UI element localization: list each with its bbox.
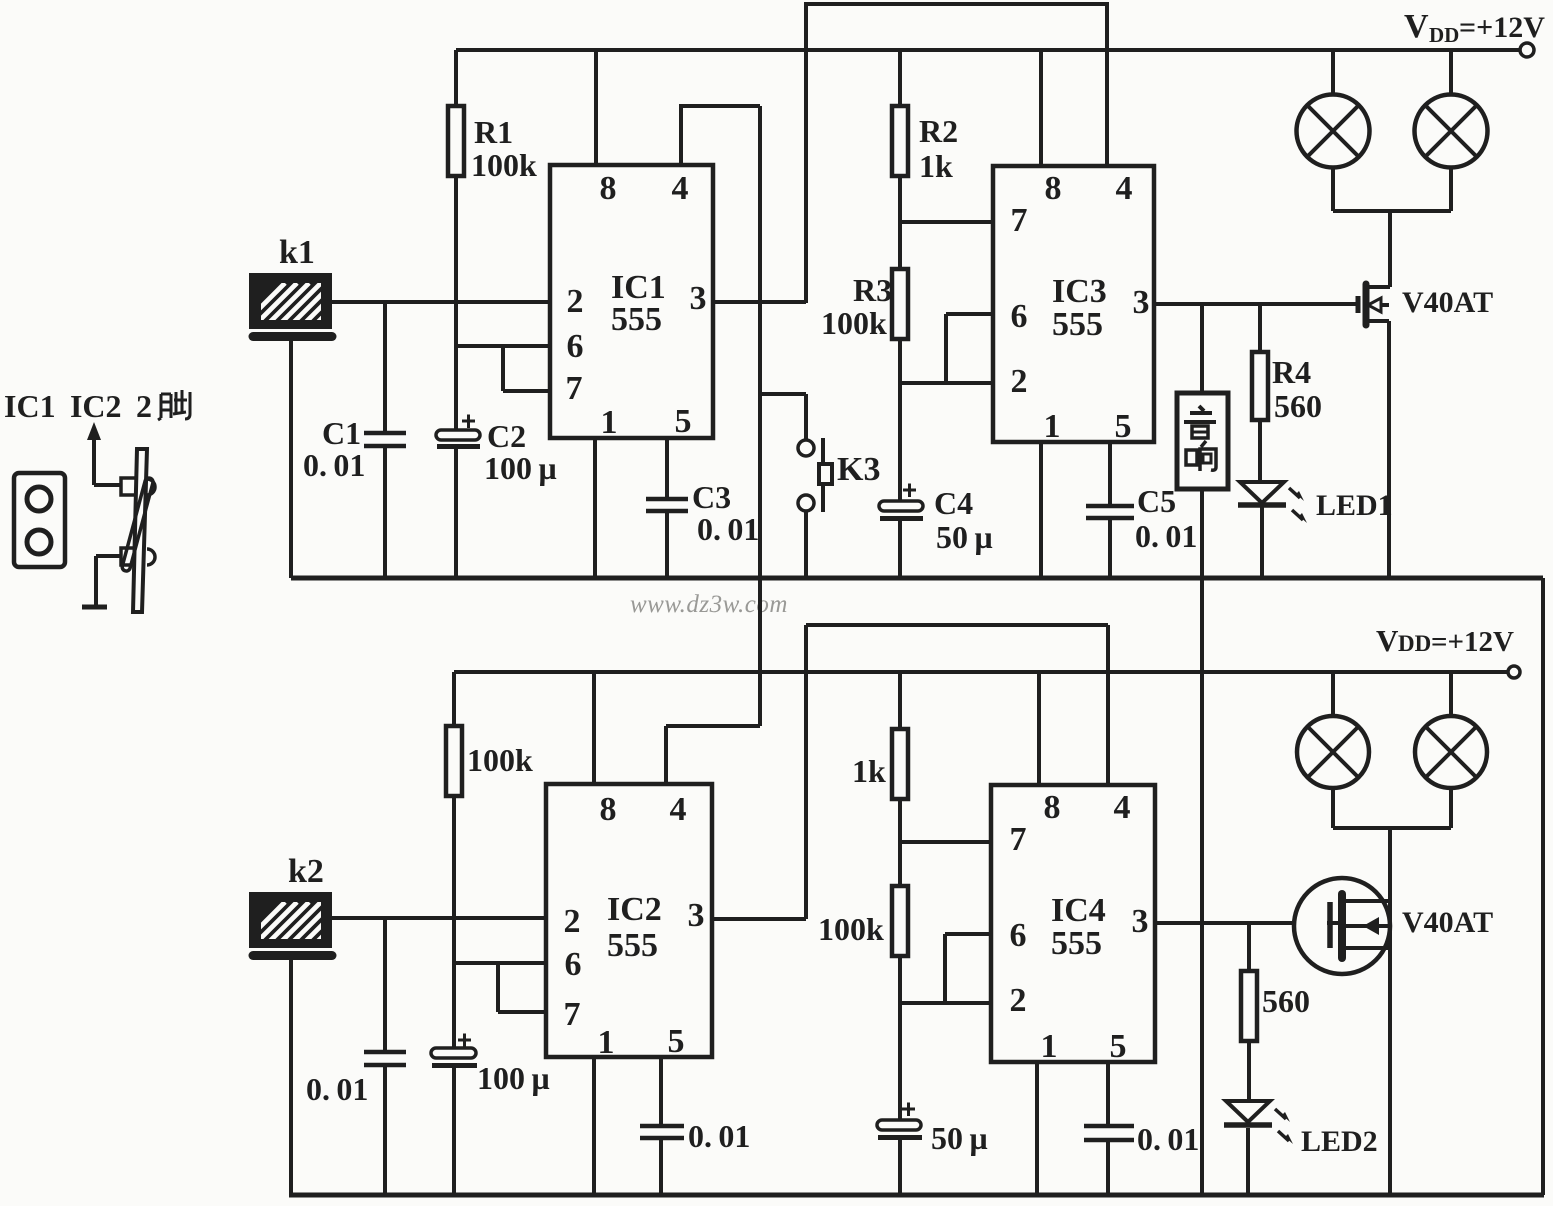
svg-text:0. 01: 0. 01: [697, 511, 759, 547]
wire lamp HL3 leads: [1331, 672, 1335, 828]
resistor R8 body (560): [1241, 971, 1257, 1041]
capacitor C3 plates: [646, 499, 688, 511]
capacitor C1 plates: [364, 433, 406, 446]
wire lamps to drain (bottom): [1388, 828, 1392, 901]
svg-text:4: 4: [670, 791, 687, 828]
wire lamp join (bottom): [1333, 826, 1451, 830]
node VDD rail (top): [456, 48, 1520, 52]
wire right edge ground link: [1541, 578, 1545, 1195]
resistor R2 body: [892, 106, 908, 176]
capacitor C8 plates (0.01): [640, 1126, 684, 1138]
svg-text:100k: 100k: [471, 147, 537, 183]
svg-text:IC3: IC3: [1052, 273, 1107, 310]
wire source to ground rail (bottom): [1388, 901, 1392, 1195]
wire C6 branch (0.01): [383, 918, 387, 1195]
capacitor C10 plates (0.01): [1084, 1126, 1134, 1140]
polarity + of C4: [903, 484, 916, 498]
svg-text:2: 2: [564, 903, 581, 940]
svg-text:5: 5: [675, 403, 692, 440]
wire VDD to R6: [898, 672, 902, 729]
wire lamp HL2 leads: [1449, 50, 1453, 211]
diode LED1: [1240, 482, 1284, 503]
svg-text:V: V: [1376, 623, 1399, 658]
capacitor C9 plates (electrolytic 50u): [877, 1120, 921, 1130]
svg-text:50 µ: 50 µ: [936, 519, 993, 555]
pivot bumps (inset): [147, 479, 155, 495]
lamp HL4: [1415, 716, 1487, 788]
wire IC4 pin6 jog: [945, 934, 991, 1003]
wire IC2 pin5 through C8: [659, 1057, 663, 1195]
svg-text:560: 560: [1274, 388, 1322, 424]
wire lamp HL4 leads: [1449, 672, 1453, 828]
svg-text:0. 01: 0. 01: [688, 1118, 750, 1154]
svg-text:C3: C3: [692, 479, 731, 515]
svg-text:LED1: LED1: [1316, 489, 1393, 522]
svg-text:1k: 1k: [919, 148, 953, 184]
svg-text:1: 1: [1044, 408, 1061, 445]
wire R5 bottom to C7: [452, 796, 456, 1049]
svg-text:5: 5: [1110, 1028, 1127, 1065]
wire C2 to ground rail: [454, 448, 458, 578]
svg-text:5: 5: [1115, 408, 1132, 445]
terminal VDD (bottom): [1508, 666, 1520, 678]
wire K3 tap: [760, 394, 806, 440]
svg-text:=+12V: =+12V: [1459, 11, 1545, 44]
speaker (sound box): [1177, 393, 1228, 489]
wire R8 branch (560): [1247, 923, 1251, 971]
svg-text:5: 5: [668, 1023, 685, 1060]
svg-text:6: 6: [1010, 917, 1027, 954]
wire k2 to IC2 pin2: [332, 916, 546, 920]
svg-text:8: 8: [1044, 789, 1061, 826]
wire IC2 pins6-7 tie: [454, 963, 546, 1012]
svg-text:4: 4: [1114, 789, 1131, 826]
resistor R3 body: [892, 269, 908, 339]
polarity + of C9: [902, 1103, 915, 1117]
svg-text:V40AT: V40AT: [1402, 906, 1493, 939]
svg-text:=+12V: =+12V: [1431, 626, 1514, 658]
svg-text:7: 7: [1011, 202, 1028, 239]
wire IC3 pin2 stub: [900, 381, 993, 385]
capacitor C5 plates: [1086, 506, 1134, 518]
svg-text:1k: 1k: [852, 753, 886, 789]
svg-text:7: 7: [1010, 821, 1027, 858]
wire IC2 pin8 to VDD: [592, 672, 596, 784]
svg-text:0. 01: 0. 01: [1137, 1121, 1199, 1157]
svg-text:0. 01: 0. 01: [1135, 518, 1197, 554]
svg-text:k2: k2: [288, 853, 324, 890]
svg-text:2: 2: [1010, 982, 1027, 1019]
svg-text:1: 1: [598, 1024, 615, 1061]
switch k2 base plate: [253, 951, 332, 960]
wire IC1 pin4 loop: [681, 106, 760, 165]
svg-text:IC2: IC2: [607, 891, 662, 928]
svg-text:6: 6: [1011, 298, 1028, 335]
wire VDD to R5: [452, 672, 456, 726]
switch k1 base plate: [253, 332, 332, 341]
svg-text:100 µ: 100 µ: [484, 450, 557, 486]
wire K3 to ground rail: [804, 511, 808, 578]
node VDD rail (bottom): [454, 670, 1508, 674]
svg-text:100 µ: 100 µ: [477, 1060, 550, 1096]
wire IC3 pin5 through C5: [1108, 442, 1112, 578]
wire reset line (long vertical to IC2 pin4): [758, 106, 762, 726]
capacitor C6 plates: [364, 1052, 406, 1065]
wire C7 to ground rail: [452, 1067, 456, 1195]
lamp HL2: [1415, 95, 1488, 168]
wire IC2 pin4 loop to reset line: [666, 726, 760, 784]
svg-text:DD: DD: [1398, 631, 1431, 656]
wire IC1 pin1 to ground: [593, 438, 597, 578]
svg-text:2: 2: [567, 283, 584, 320]
polarity + of C2: [462, 415, 475, 429]
wire IC4 pin7 stub: [900, 840, 991, 844]
svg-text:7: 7: [566, 370, 583, 407]
resistor R1 body: [448, 106, 464, 176]
wire LED2 to ground rail: [1246, 1128, 1250, 1195]
svg-text:IC1 IC2 2: IC1 IC2 2: [4, 388, 152, 424]
wire R1 bottom to C2: [454, 176, 458, 431]
capacitor C4 plates (electrolytic): [879, 501, 923, 511]
wire C9 to ground rail: [898, 1140, 902, 1195]
svg-text:IC4: IC4: [1051, 892, 1106, 929]
svg-text:1: 1: [601, 404, 618, 441]
svg-text:3: 3: [688, 897, 705, 934]
wire lamp HL1 leads: [1331, 50, 1335, 211]
svg-text:100k: 100k: [818, 911, 884, 947]
diode LED2: [1226, 1101, 1270, 1122]
wire R3 to C4: [898, 339, 902, 501]
svg-text:R1: R1: [474, 114, 513, 150]
svg-text:7: 7: [564, 996, 581, 1033]
svg-text:100k: 100k: [467, 742, 533, 778]
op-amp IC2 555 box: [546, 784, 712, 1057]
lamp HL3: [1297, 716, 1369, 788]
lower contact lug (inset): [121, 548, 137, 565]
svg-text:R4: R4: [1272, 354, 1311, 390]
svg-text:0. 01: 0. 01: [303, 447, 365, 483]
svg-text:k1: k1: [279, 234, 315, 271]
wire speaker branch: [1200, 304, 1204, 393]
svg-text:C4: C4: [934, 485, 973, 521]
svg-text:DD: DD: [1429, 23, 1459, 47]
lamp HL1: [1297, 95, 1370, 168]
wire IC1 pin3 stub: [713, 300, 806, 304]
svg-text:555: 555: [1051, 925, 1102, 962]
svg-text:2: 2: [1011, 363, 1028, 400]
svg-text:V40AT: V40AT: [1402, 286, 1493, 319]
svg-text:C5: C5: [1137, 483, 1176, 519]
svg-text:R2: R2: [919, 113, 958, 149]
resistor R6 body (1k): [892, 729, 908, 799]
svg-text:555: 555: [1052, 306, 1103, 343]
wire R4 branch: [1258, 304, 1262, 352]
svg-text:V: V: [1404, 8, 1429, 45]
svg-text:50 µ: 50 µ: [931, 1120, 988, 1156]
tilt switch blade (inset): [121, 477, 154, 572]
op-amp IC1 555 box: [550, 165, 713, 438]
wire IC3 pin7 stub: [900, 220, 993, 224]
arrow to IC pin2: [94, 432, 122, 485]
wire IC4 pin5 through C10: [1106, 1062, 1110, 1195]
svg-text:100k: 100k: [821, 305, 887, 341]
wire IC1 pin5 through C3: [665, 438, 669, 578]
transistor V40AT (bottom): [1294, 878, 1390, 974]
svg-text:8: 8: [1045, 170, 1062, 207]
svg-text:555: 555: [607, 927, 658, 964]
switch K3 contacts: [798, 440, 814, 456]
svg-text:1: 1: [1041, 1028, 1058, 1065]
terminal VDD (top): [1520, 43, 1534, 57]
wire IC4 pin3 output line: [1155, 921, 1327, 925]
wire IC4 pin1 to ground: [1035, 1062, 1039, 1195]
svg-text:LED2: LED2: [1301, 1125, 1378, 1158]
wire IC1 pins6-7 tie: [456, 346, 550, 391]
wire IC3 pin3 output line: [1154, 302, 1357, 306]
wire k1 base to ground rail: [289, 341, 293, 578]
svg-text:6: 6: [565, 946, 582, 983]
ground (inset): [82, 605, 107, 610]
svg-text:8: 8: [600, 170, 617, 207]
capacitor C7 plates (electrolytic 100u): [431, 1048, 476, 1058]
wire R8 to LED2: [1247, 1041, 1251, 1101]
svg-text:www.dz3w.com: www.dz3w.com: [630, 591, 788, 618]
svg-text:C1: C1: [322, 415, 361, 451]
wire lower contact to ground (inset): [96, 556, 122, 605]
svg-text:560: 560: [1262, 983, 1310, 1019]
resistor R7 body (100k): [892, 886, 908, 956]
svg-text:3: 3: [690, 280, 707, 317]
polarity + of C7: [458, 1034, 471, 1048]
capacitor C2 plates (electrolytic): [436, 430, 480, 440]
resistor R5 body (100k): [446, 726, 462, 796]
node ground rail (top circuit): [291, 576, 1543, 581]
wire VDD to R2: [898, 50, 902, 106]
wire R7 to C9: [898, 956, 902, 1121]
connector socket (inset): [14, 473, 65, 567]
switch K3 actuator: [821, 438, 825, 512]
svg-text:8: 8: [600, 791, 617, 828]
svg-text:0. 01: 0. 01: [306, 1071, 368, 1107]
wire k1 to IC1 pin2: [332, 300, 550, 304]
speaker glyph YIN: [1184, 406, 1216, 438]
svg-text:4: 4: [672, 170, 689, 207]
wire VDD to R1: [454, 50, 458, 106]
resistor R4 body: [1252, 352, 1268, 420]
svg-text:4: 4: [1116, 170, 1133, 207]
wire k2 base to ground rail: [289, 960, 293, 1195]
wire IC4 pin2 stub: [900, 1001, 991, 1005]
svg-text:6: 6: [567, 328, 584, 365]
tilt switch plate (inset): [133, 449, 147, 612]
wire IC3 pin6 jog: [946, 314, 993, 383]
wire IC2 pin3 to IC4 pin4 link: [712, 625, 1108, 919]
svg-text:R3: R3: [853, 272, 892, 308]
wire IC3 pin8 to VDD: [1039, 50, 1043, 166]
node ground rail (bottom circuit): [289, 1193, 1544, 1198]
wire C4 to ground rail: [898, 521, 902, 578]
wire IC3 pin1 to ground: [1039, 442, 1043, 578]
op-amp IC4 555 box: [991, 785, 1155, 1062]
svg-text:C2: C2: [487, 418, 526, 454]
op-amp IC3 555 box: [993, 166, 1154, 442]
wire lamps to drain: [1388, 211, 1392, 287]
svg-text:3: 3: [1133, 284, 1150, 321]
glyph JIAO (foot): [158, 390, 190, 420]
wire lamp join: [1333, 209, 1451, 213]
switch k2 body (hatched sensor): [243, 892, 357, 948]
upper contact lug (inset): [121, 478, 137, 495]
wire IC1 pin8 to VDD: [594, 50, 598, 165]
wire R6 to R7: [898, 799, 902, 886]
wire C1 branch: [383, 302, 387, 578]
wire R2 to R3: [898, 176, 902, 269]
wire speaker to bottom ground rail: [1200, 489, 1204, 1195]
wire LED1 to ground rail: [1260, 507, 1264, 578]
wire source to ground rail: [1387, 321, 1391, 578]
wire IC1 pin3 to IC3 pin4 (top link): [806, 4, 1107, 303]
svg-text:555: 555: [611, 301, 662, 338]
svg-text:K3: K3: [837, 451, 880, 488]
wire R4 to LED1: [1258, 420, 1262, 482]
transistor V40AT (top): [1358, 284, 1390, 325]
speaker glyph XIANG: [1186, 441, 1216, 471]
svg-text:3: 3: [1132, 903, 1149, 940]
wire IC4 pin8 to VDD: [1037, 672, 1041, 785]
wire IC2 pin1 to ground: [592, 1057, 596, 1195]
switch k1 body (hatched sensor): [243, 273, 357, 329]
